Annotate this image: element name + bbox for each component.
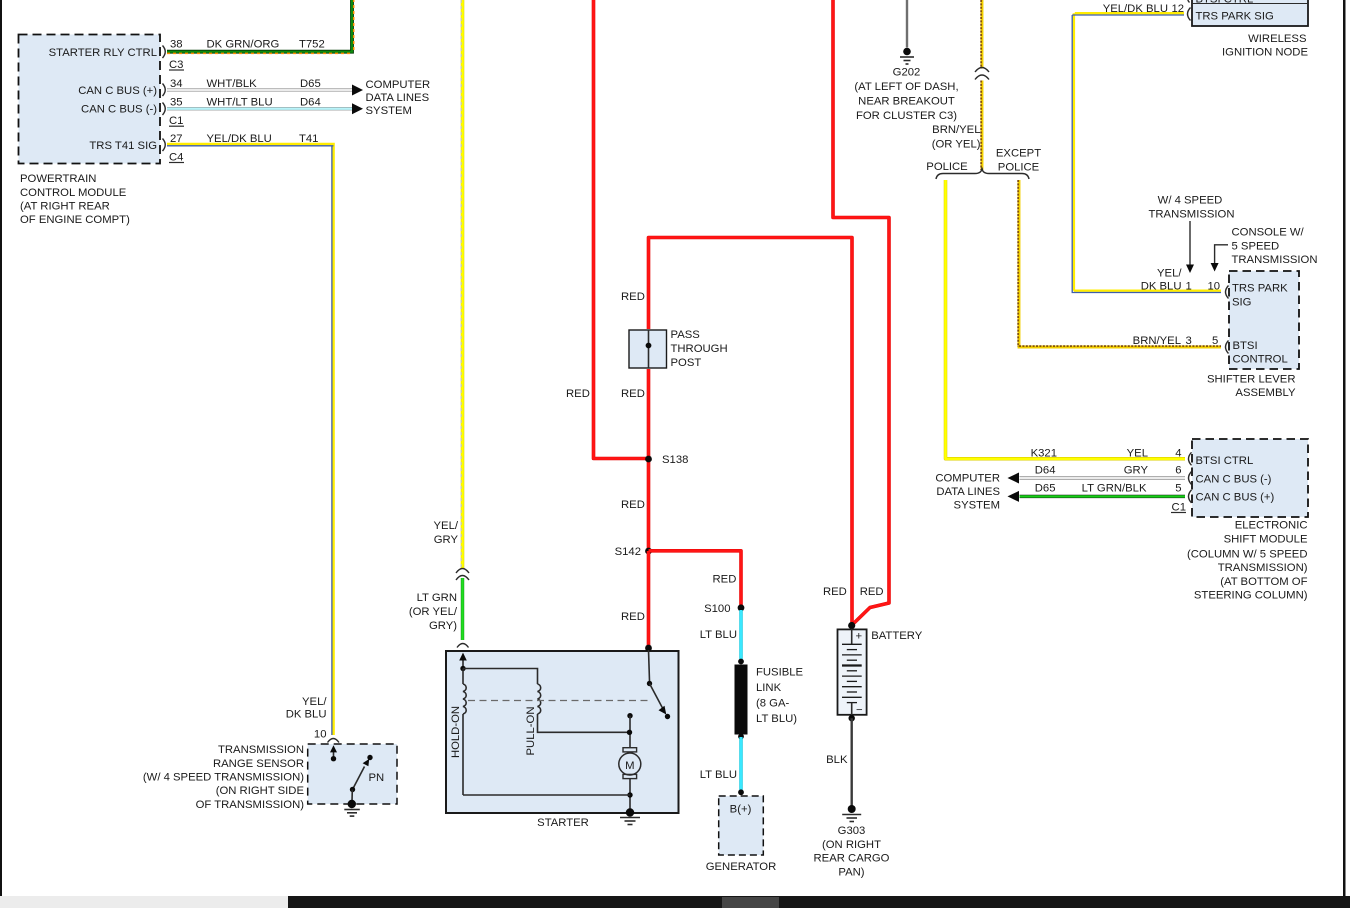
svg-text:SHIFT MODULE: SHIFT MODULE <box>1224 533 1308 545</box>
svg-text:DK GRN/ORG: DK GRN/ORG <box>207 38 280 50</box>
svg-text:CAN C BUS (+): CAN C BUS (+) <box>1196 492 1275 504</box>
svg-text:S100: S100 <box>704 603 730 615</box>
wire gray to G202 <box>906 0 908 48</box>
pin 38 socket <box>163 46 166 59</box>
svg-text:HOLD-ON: HOLD-ON <box>450 706 462 758</box>
wire LT BLU (S100 to fusible link) <box>700 610 741 661</box>
svg-text:OF TRANSMISSION): OF TRANSMISSION) <box>196 799 305 811</box>
svg-text:TRANSMISSION): TRANSMISSION) <box>1218 562 1308 574</box>
starter pull-on coil <box>463 669 630 756</box>
svg-text:CONTROL MODULE: CONTROL MODULE <box>20 187 127 199</box>
pass-through post <box>629 329 728 369</box>
svg-text:RED: RED <box>621 499 645 511</box>
svg-text:LINK: LINK <box>756 682 782 694</box>
svg-text:STARTER RLY CTRL: STARTER RLY CTRL <box>49 47 157 59</box>
arrow to computer data lines (D65) <box>352 85 363 96</box>
svg-text:(AT RIGHT REAR: (AT RIGHT REAR <box>20 201 110 213</box>
svg-text:W/ 4 SPEED: W/ 4 SPEED <box>1158 194 1223 206</box>
arrow left (D64) <box>1008 473 1020 484</box>
TRS caption <box>143 744 305 811</box>
svg-text:(8 GA-: (8 GA- <box>756 698 790 710</box>
svg-text:(OR YEL/: (OR YEL/ <box>409 606 458 618</box>
node S100 <box>704 603 744 615</box>
svg-text:YEL: YEL <box>1127 447 1148 459</box>
svg-text:LT GRN: LT GRN <box>417 592 457 604</box>
svg-text:POST: POST <box>671 357 702 369</box>
svg-text:REAR CARGO: REAR CARGO <box>814 853 890 865</box>
brace POLICE / EXCEPT POLICE <box>926 147 1041 179</box>
svg-text:IGNITION NODE: IGNITION NODE <box>1222 47 1308 59</box>
wire LT BLU (fusible link to generator) <box>700 737 744 795</box>
svg-text:M: M <box>625 760 634 772</box>
svg-text:G202: G202 <box>893 66 921 78</box>
svg-text:(COLUMN W/ 5 SPEED: (COLUMN W/ 5 SPEED <box>1187 548 1308 560</box>
svg-text:10: 10 <box>314 728 327 740</box>
svg-text:BRN/YEL: BRN/YEL <box>1133 335 1181 347</box>
svg-text:RED: RED <box>823 586 847 598</box>
svg-text:D65: D65 <box>1035 482 1056 494</box>
svg-text:1: 1 <box>1186 281 1192 293</box>
svg-text:(ON RIGHT: (ON RIGHT <box>822 839 881 851</box>
starter linkage dashed line <box>468 700 650 702</box>
svg-text:SIG: SIG <box>1232 297 1251 309</box>
svg-text:GENERATOR: GENERATOR <box>706 861 777 873</box>
svg-text:WIRELESS: WIRELESS <box>1248 33 1307 45</box>
svg-text:D64: D64 <box>300 97 321 109</box>
svg-text:THROUGH: THROUGH <box>671 343 728 355</box>
svg-text:S138: S138 <box>662 454 688 466</box>
connector C1 label (ESM) <box>1171 501 1186 513</box>
svg-text:POWERTRAIN: POWERTRAIN <box>20 173 96 185</box>
svg-text:BTSI: BTSI <box>1233 340 1258 352</box>
starter internals: feed arrow and node <box>459 653 467 672</box>
svg-text:C4: C4 <box>169 151 183 163</box>
svg-text:COMPUTER: COMPUTER <box>935 473 1000 485</box>
svg-text:12: 12 <box>1172 3 1185 15</box>
svg-text:38: 38 <box>170 39 183 51</box>
svg-text:3: 3 <box>1186 335 1192 347</box>
ground G202 <box>854 48 958 122</box>
connector C4 label <box>169 151 184 163</box>
svg-text:DK BLU: DK BLU <box>286 709 327 721</box>
pin 34 socket <box>163 84 166 97</box>
svg-text:PASS: PASS <box>671 329 701 341</box>
starter solenoid switch <box>645 645 670 720</box>
svg-text:DATA LINES: DATA LINES <box>366 92 430 104</box>
TRS pin socket <box>328 739 340 743</box>
PCM caption <box>20 173 130 226</box>
svg-text:BATTERY: BATTERY <box>871 630 923 642</box>
svg-text:10: 10 <box>1208 281 1221 293</box>
svg-text:FUSIBLE: FUSIBLE <box>756 667 804 679</box>
svg-text:CONSOLE W/: CONSOLE W/ <box>1232 227 1305 239</box>
svg-text:YEL/: YEL/ <box>434 520 459 532</box>
svg-text:B(+): B(+) <box>730 804 752 816</box>
svg-text:CAN C BUS (+): CAN C BUS (+) <box>78 85 157 97</box>
wire RED (post to S138) <box>621 369 649 551</box>
wire RED (hot at all times, right feed) <box>823 0 889 624</box>
svg-text:GRY: GRY <box>1124 464 1149 476</box>
svg-text:RANGE SENSOR: RANGE SENSOR <box>213 758 304 770</box>
wire RED (fuse feed, left branch to S138) <box>566 0 646 459</box>
splice break on BRN/YEL <box>975 68 989 80</box>
wire WHT/LT BLU D64 (CAN C bus -) <box>167 97 352 109</box>
svg-text:NEAR BREAKOUT: NEAR BREAKOUT <box>858 95 955 107</box>
svg-text:PAN): PAN) <box>838 867 864 879</box>
wire YEL/DK BLU (WIN pin 12 to shifter pin 10) <box>1072 3 1221 292</box>
svg-text:C3: C3 <box>169 59 183 71</box>
svg-text:(OR YEL): (OR YEL) <box>932 139 981 151</box>
ground (TRS PN) <box>344 800 360 816</box>
svg-text:YEL/: YEL/ <box>1157 268 1182 280</box>
svg-text:POLICE: POLICE <box>926 161 968 173</box>
battery <box>838 622 923 722</box>
ESM caption <box>1187 520 1308 602</box>
shifter lever assembly <box>1207 271 1299 399</box>
node S142 <box>615 546 652 558</box>
svg-text:5 SPEED: 5 SPEED <box>1232 241 1280 253</box>
svg-text:WHT/BLK: WHT/BLK <box>207 78 258 90</box>
wire DK GRN/ORG T752 (starter relay control) <box>167 0 354 53</box>
svg-text:YEL/: YEL/ <box>302 696 327 708</box>
svg-text:5: 5 <box>1212 335 1218 347</box>
svg-text:T752: T752 <box>299 38 325 50</box>
svg-text:4: 4 <box>1175 447 1181 459</box>
svg-text:WHT/LT BLU: WHT/LT BLU <box>207 97 273 109</box>
svg-text:K321: K321 <box>1031 447 1057 459</box>
wire RED (main feed from battery side) <box>621 238 852 623</box>
svg-text:(ON RIGHT SIDE: (ON RIGHT SIDE <box>216 785 305 797</box>
svg-text:STARTER: STARTER <box>537 817 589 829</box>
svg-text:6: 6 <box>1175 464 1181 476</box>
svg-text:SYSTEM: SYSTEM <box>954 500 1000 512</box>
svg-text:35: 35 <box>170 97 183 109</box>
svg-text:G303: G303 <box>838 825 866 837</box>
arrow left (D65) <box>1008 491 1020 502</box>
connector C3 label <box>169 59 184 71</box>
node S138 <box>645 454 688 466</box>
svg-text:OF ENGINE COMPT): OF ENGINE COMPT) <box>20 214 130 226</box>
svg-text:POLICE: POLICE <box>998 162 1040 174</box>
svg-text:LT BLU: LT BLU <box>700 769 737 781</box>
node COMPUTER DATA LINES SYSTEM (right) <box>935 473 1000 512</box>
wire YEL (or YEL/GRY) vertical <box>434 0 463 568</box>
starter pin socket <box>457 644 469 648</box>
svg-text:DK BLU: DK BLU <box>1141 281 1182 293</box>
svg-text:PN: PN <box>369 772 385 784</box>
svg-text:TRANSMISSION: TRANSMISSION <box>1149 208 1235 220</box>
svg-text:TRS T41 SIG: TRS T41 SIG <box>89 140 157 152</box>
note W/ 4 SPEED TRANSMISSION with arrow <box>1149 194 1235 273</box>
arrow to computer data lines (D64) <box>352 103 363 114</box>
svg-text:CONTROL: CONTROL <box>1233 354 1288 366</box>
svg-text:LT GRN/BLK: LT GRN/BLK <box>1082 482 1147 494</box>
transmission range sensor <box>308 744 397 804</box>
svg-text:YEL/DK BLU: YEL/DK BLU <box>207 133 272 145</box>
starter hold-on coil <box>450 669 466 796</box>
svg-text:BLK: BLK <box>826 754 848 766</box>
wire RED (S142 to starter) <box>621 551 649 648</box>
svg-text:−: − <box>856 705 863 717</box>
svg-text:RED: RED <box>566 388 590 400</box>
svg-text:TRS PARK SIG: TRS PARK SIG <box>1196 11 1274 23</box>
svg-text:+: + <box>856 631 863 643</box>
svg-text:S142: S142 <box>615 546 641 558</box>
svg-text:TRANSMISSION: TRANSMISSION <box>1232 254 1318 266</box>
svg-text:CAN C BUS (-): CAN C BUS (-) <box>81 104 157 116</box>
splice break on wire <box>456 569 469 581</box>
electronic shift module (ESM) <box>1189 439 1309 517</box>
svg-text:SHIFTER LEVER: SHIFTER LEVER <box>1207 374 1296 386</box>
wire YEL K321 (police, to ESM pin 4) <box>946 180 1186 459</box>
wireless ignition node (WIN) <box>1188 0 1309 59</box>
ground G303 <box>814 805 890 879</box>
connector C1 label <box>169 115 184 127</box>
svg-text:DATA LINES: DATA LINES <box>936 486 1000 498</box>
svg-text:RED: RED <box>621 291 645 303</box>
svg-text:D65: D65 <box>300 78 321 90</box>
note CONSOLE W/ 5 SPEED TRANSMISSION with arrow <box>1211 227 1318 272</box>
node COMPUTER DATA LINES SYSTEM (left) <box>366 79 431 117</box>
svg-text:5: 5 <box>1175 482 1181 494</box>
svg-text:COMPUTER: COMPUTER <box>366 79 431 91</box>
wire WHT/BLK D65 (CAN C bus +) <box>167 78 352 90</box>
svg-text:PULL-ON: PULL-ON <box>525 707 537 756</box>
svg-text:C1: C1 <box>1172 501 1186 513</box>
starter assembly box <box>446 651 679 829</box>
svg-text:C1: C1 <box>169 115 183 127</box>
svg-text:D64: D64 <box>1035 464 1056 476</box>
svg-text:TRANSMISSION: TRANSMISSION <box>218 744 304 756</box>
svg-text:BTSI CTRL: BTSI CTRL <box>1196 455 1254 467</box>
svg-text:LT BLU: LT BLU <box>700 629 737 641</box>
svg-text:GRY: GRY <box>434 534 459 546</box>
pin 27 socket <box>163 139 166 152</box>
pin 35 socket <box>163 103 166 116</box>
svg-text:BTSI CTRL: BTSI CTRL <box>1196 0 1254 6</box>
svg-text:RED: RED <box>713 574 737 586</box>
wire YEL/DK BLU T41 (TRS T41 signal) <box>167 133 334 735</box>
svg-text:CAN C BUS (-): CAN C BUS (-) <box>1196 473 1272 485</box>
svg-text:RED: RED <box>621 388 645 400</box>
svg-text:(W/ 4 SPEED TRANSMISSION): (W/ 4 SPEED TRANSMISSION) <box>143 772 304 784</box>
svg-text:BRN/YEL: BRN/YEL <box>932 124 980 136</box>
svg-text:(AT BOTTOM OF: (AT BOTTOM OF <box>1220 576 1307 588</box>
svg-text:SYSTEM: SYSTEM <box>366 105 412 117</box>
svg-text:RED: RED <box>860 586 884 598</box>
svg-text:T41: T41 <box>299 133 318 145</box>
module PCM (POWERTRAIN CONTROL MODULE) <box>19 35 161 164</box>
wire BLK (battery negative) <box>826 718 852 806</box>
svg-text:YEL/DK BLU: YEL/DK BLU <box>1103 3 1168 15</box>
svg-text:LT BLU): LT BLU) <box>756 713 797 725</box>
transmission range sensor label wire YEL/DK BLU <box>286 696 328 740</box>
svg-text:TRS PARK: TRS PARK <box>1232 283 1288 295</box>
svg-text:(AT LEFT OF DASH,: (AT LEFT OF DASH, <box>854 81 958 93</box>
wire LT GRN/BLK D65 (ESM CAN +) <box>1020 482 1186 496</box>
svg-text:ELECTRONIC: ELECTRONIC <box>1235 520 1308 532</box>
wire LT GRN (or YEL/GRY) to starter <box>409 578 463 640</box>
svg-text:RED: RED <box>621 611 645 623</box>
svg-text:GRY): GRY) <box>429 620 457 632</box>
wire BRN/YEL (or YEL) vertical <box>932 0 982 170</box>
fusible link F1 <box>735 659 804 740</box>
svg-text:STEERING COLUMN): STEERING COLUMN) <box>1194 590 1308 602</box>
starter motor branch <box>463 713 641 810</box>
generator <box>706 796 777 873</box>
svg-text:FOR CLUSTER C3): FOR CLUSTER C3) <box>856 110 957 122</box>
wire GRY D64 (ESM CAN -) <box>1020 464 1186 478</box>
svg-text:ASSEMBLY: ASSEMBLY <box>1235 387 1296 399</box>
svg-text:EXCEPT: EXCEPT <box>996 147 1041 159</box>
wire RED (S142 to S100) <box>649 551 742 606</box>
ground (starter) <box>620 808 640 824</box>
wire BRN/YEL (except police, to shifter BTSI pin 5) <box>1018 180 1221 347</box>
